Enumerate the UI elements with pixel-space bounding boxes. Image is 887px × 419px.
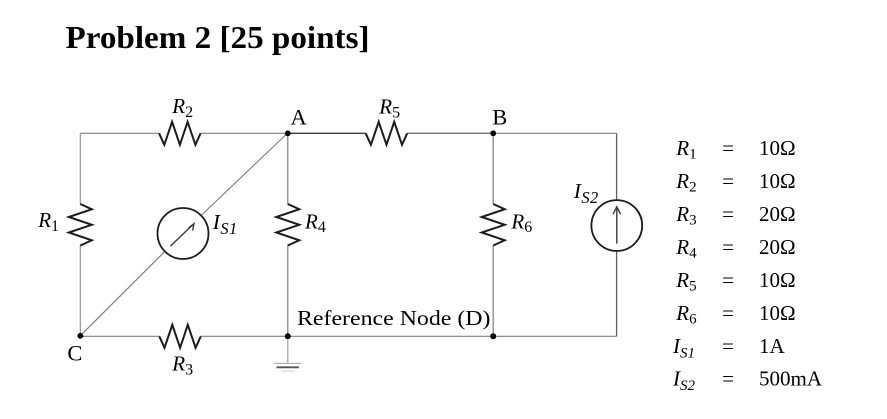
- resistor R2: [159, 122, 201, 145]
- wire R6 to bottom: [492, 245, 494, 336]
- wire B to R6: [492, 133, 494, 204]
- svg-text:10Ω: 10Ω: [759, 169, 796, 193]
- wire IS1 to node A: [201, 133, 288, 216]
- svg-text:Reference Node (D): Reference Node (D): [297, 306, 491, 330]
- node C: [77, 333, 83, 339]
- node D (reference): [285, 333, 291, 339]
- svg-text:=: =: [722, 202, 734, 226]
- svg-text:A: A: [290, 105, 307, 130]
- resistor R3: [159, 325, 201, 348]
- svg-text:Problem 2 [25 points]: Problem 2 [25 points]: [66, 19, 370, 55]
- wire R5 to node B: [407, 132, 493, 134]
- svg-text:20Ω: 20Ω: [759, 235, 796, 259]
- wire IS2 to bottom-right corner: [616, 251, 618, 336]
- resistor R4: [276, 204, 299, 246]
- node B: [490, 130, 496, 136]
- IS2 arrow: [616, 208, 618, 244]
- svg-text:=: =: [722, 169, 734, 193]
- svg-text:=: =: [722, 301, 734, 325]
- current source IS2: [591, 200, 642, 251]
- wire R2 to node A: [201, 132, 288, 134]
- wire right vertical upper (corner to IS2): [616, 133, 618, 200]
- current source IS1: [158, 208, 209, 259]
- resistor R1: [69, 204, 92, 246]
- wire node D to bottom-right corner: [288, 335, 617, 337]
- svg-text:20Ω: 20Ω: [759, 202, 796, 226]
- svg-text:C: C: [67, 340, 82, 365]
- svg-text:=: =: [722, 235, 734, 259]
- ground: [287, 340, 289, 364]
- wire top-left horizontal (corner to R2): [80, 132, 159, 134]
- svg-text:1A: 1A: [759, 334, 786, 358]
- wire node B to top-right corner: [493, 132, 616, 134]
- svg-text:B: B: [492, 105, 507, 130]
- values list: [672, 136, 823, 394]
- svg-text:=: =: [722, 268, 734, 292]
- node A: [285, 130, 291, 136]
- svg-text:=: =: [722, 136, 734, 160]
- wire A to R4: [287, 133, 289, 204]
- svg-text:=: =: [722, 367, 734, 391]
- IS1 arrow: [170, 225, 192, 246]
- wire R4 to node D: [287, 245, 289, 336]
- svg-text:500mA: 500mA: [759, 367, 823, 391]
- wire left vertical upper (corner to R1): [79, 133, 81, 204]
- svg-text:10Ω: 10Ω: [759, 268, 796, 292]
- svg-text:10Ω: 10Ω: [759, 136, 796, 160]
- node junction B-bottom: [490, 333, 496, 339]
- resistor R5: [366, 122, 408, 145]
- resistor R6: [482, 204, 505, 246]
- svg-text:10Ω: 10Ω: [759, 301, 796, 325]
- wire bottom (C to R3): [80, 335, 159, 337]
- wire node A to R5 (dark lead): [288, 132, 366, 134]
- svg-text:=: =: [722, 334, 734, 358]
- wire diagonal C to IS1: [80, 251, 165, 335]
- wire R3 to node D: [201, 335, 288, 337]
- wire left vertical lower (R1 to node C): [79, 245, 81, 336]
